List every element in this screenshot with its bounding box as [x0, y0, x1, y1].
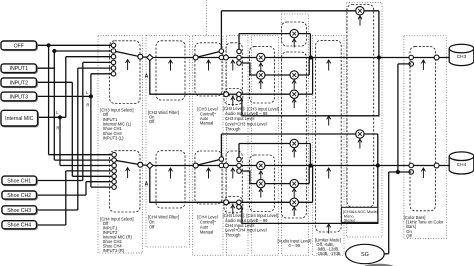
svg-text:Shoe CH4: Shoe CH4 [7, 223, 31, 229]
svg-text:INPUT3 (R): INPUT3 (R) [103, 248, 125, 253]
svg-text:A: A [145, 182, 149, 188]
svg-text:Off: Off [149, 225, 155, 230]
svg-text:-15dB, -17dB: -15dB, -17dB [316, 251, 340, 256]
svg-text:R: R [56, 126, 59, 131]
svg-text:CH3: CH3 [457, 54, 467, 59]
svg-text:CH4: CH4 [457, 162, 467, 167]
svg-text:Manual: Manual [200, 121, 214, 126]
svg-text:INPUT2: INPUT2 [10, 80, 29, 86]
svg-text:OFF: OFF [14, 43, 24, 49]
svg-text:R: R [86, 103, 89, 108]
svg-text:INPUT3 (L): INPUT3 (L) [103, 136, 124, 141]
svg-text:Off: Off [406, 233, 412, 238]
svg-text:A: A [145, 74, 149, 80]
svg-text:Manual: Manual [200, 230, 214, 235]
svg-text:SG: SG [361, 252, 369, 258]
svg-text:Shoe CH1: Shoe CH1 [7, 178, 31, 184]
svg-text:Shoe CH2: Shoe CH2 [7, 193, 31, 199]
svg-text:INPUT3: INPUT3 [10, 94, 29, 100]
svg-text:Through: Through [225, 126, 241, 131]
svg-text:Internal MIC: Internal MIC [5, 116, 34, 122]
svg-text:0 – 99: 0 – 99 [289, 243, 301, 248]
svg-text:Off: Off [149, 119, 155, 124]
svg-text:Through: Through [225, 233, 241, 238]
svg-text:Stereo: Stereo [344, 218, 355, 223]
svg-text:0 – 99: 0 – 99 [256, 218, 268, 223]
svg-text:INPUT1: INPUT1 [10, 66, 29, 72]
svg-text:Shoe CH3: Shoe CH3 [7, 208, 31, 214]
svg-text:0 – 99: 0 – 99 [256, 111, 268, 116]
